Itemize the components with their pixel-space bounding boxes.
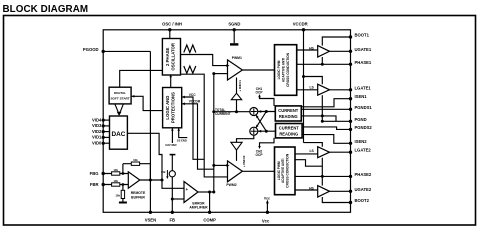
wire phase sense ch2 <box>295 160 322 167</box>
node reading2 branch <box>265 130 268 133</box>
wire total current to summer1 <box>214 111 250 113</box>
arrowhead ramp1 into PWM1 <box>226 64 229 67</box>
svg-text:OCP: OCP <box>256 90 264 94</box>
svg-text:OSCILLATOR: OSCILLATOR <box>170 42 175 70</box>
svg-text:LOGIC PWM: LOGIC PWM <box>277 161 281 180</box>
svg-text:UGATE1: UGATE1 <box>355 47 372 52</box>
svg-text:10k: 10k <box>113 179 118 183</box>
svg-text:PHASE2: PHASE2 <box>355 172 372 177</box>
svg-text:SGND: SGND <box>228 22 240 27</box>
svg-text:CURRENT: CURRENT <box>215 112 231 116</box>
svg-text:LGATE1: LGATE1 <box>355 85 372 90</box>
PWM comparator PWM2 <box>228 161 243 182</box>
node PGND junction <box>321 120 324 123</box>
current reading box ch1 <box>275 106 301 121</box>
sawtooth ramp2 glyph <box>184 66 196 73</box>
wire PHASE2 to HS2 top <box>321 176 323 185</box>
wire CH1 OCP tap <box>260 95 275 106</box>
wire PGNDS1 <box>301 108 350 110</box>
remote buffer opamp <box>128 172 140 188</box>
wire OSC/INH stub <box>169 30 171 39</box>
node FBR buffer junction <box>122 183 125 186</box>
node riser PWM2 junction <box>212 164 215 167</box>
wire summer1 correction to PWM1 <box>236 78 238 112</box>
arrowhead CH1 OCP <box>258 94 261 97</box>
wire VID2 stub <box>103 131 109 133</box>
svg-text:PWM1: PWM1 <box>232 56 242 60</box>
svg-text:+ IINFO2: + IINFO2 <box>242 155 246 167</box>
svg-text:SOFT START: SOFT START <box>110 96 129 100</box>
wire protections bottom arrow2 <box>179 128 188 137</box>
node PGOOD pin <box>102 50 105 53</box>
PWM comparator PWM1 <box>228 60 243 80</box>
svg-text:VID2: VID2 <box>92 129 102 134</box>
soft start to DAC bus arrow <box>115 104 124 112</box>
resistor 10k to ground <box>121 190 124 198</box>
svg-text:CROSS CONDUCTION: CROSS CONDUCTION <box>286 153 290 188</box>
node reference junction <box>161 179 164 182</box>
wire LS2 bottom to PHASE2 <box>321 158 323 177</box>
wire FB to error amp inverting input <box>172 198 184 200</box>
node FB tap junction <box>171 198 174 201</box>
svg-text:DIGITAL: DIGITAL <box>114 91 126 95</box>
wire FBG input <box>103 173 128 175</box>
svg-text:CURRENT: CURRENT <box>279 126 300 131</box>
node VID2 pin <box>102 130 105 133</box>
svg-text:HS: HS <box>309 186 314 190</box>
svg-text:PGOOD: PGOOD <box>83 47 99 52</box>
arrowhead diag into summer1 <box>256 115 259 118</box>
arrowhead reading2 into summer2 <box>258 130 261 133</box>
svg-text:HS: HS <box>309 46 314 50</box>
node PHASE2 pin <box>349 175 352 178</box>
wire VID1 stub <box>103 136 109 138</box>
node PHASE2 junction <box>321 175 324 178</box>
wire ISEN1 <box>301 99 350 107</box>
current reading box ch2 <box>276 124 303 138</box>
wire PHASE2 <box>295 175 351 177</box>
svg-text:PGNDS1: PGNDS1 <box>355 105 373 110</box>
wire VID4 stub <box>103 119 109 121</box>
wire VCCDR to LS2 driver <box>304 143 323 147</box>
wire summer2 output to PWM2 <box>237 135 254 161</box>
summer circle ch2 <box>250 127 258 135</box>
wire driver logic to HS2 <box>295 189 318 191</box>
svg-text:LOGIC PWM: LOGIC PWM <box>277 60 281 79</box>
LS2 driver <box>318 147 330 158</box>
svg-text:PGNDS2: PGNDS2 <box>355 125 373 130</box>
wire DAC output to error amp <box>127 133 184 188</box>
wire LGATE1 <box>330 89 351 91</box>
SGND ground bar <box>230 43 238 45</box>
node VID0 pin <box>102 142 105 145</box>
summer circle ch1 <box>250 108 258 116</box>
droop current generator <box>169 171 175 177</box>
pin labels left side <box>83 47 102 187</box>
svg-text:CURRENT: CURRENT <box>278 108 299 113</box>
node riser total current junction <box>212 110 215 113</box>
wire droop tee bar stem <box>171 155 173 171</box>
wire oscillator to soft start <box>120 70 163 87</box>
node PHASE1 pin <box>349 63 352 66</box>
wire protections to soft start <box>132 96 163 110</box>
node LGATE1 pin <box>349 88 352 91</box>
svg-text:READING: READING <box>279 114 298 119</box>
wire remote buffer feedback <box>123 164 150 180</box>
wire CH2 OCP tap <box>260 138 275 147</box>
anti cross conduction logic box ch2 <box>275 147 296 195</box>
svg-text:AMPLIFIER: AMPLIFIER <box>189 206 208 210</box>
svg-text:FBG: FBG <box>90 171 99 176</box>
arrowhead VCC into protections <box>182 96 185 99</box>
wire PGND <box>322 120 350 122</box>
svg-text:VSEN: VSEN <box>145 218 156 223</box>
wire COMP riser to PWM1 inverting input <box>214 73 228 75</box>
wire ramp1 from oscillator to PWM1 <box>181 55 228 66</box>
wire current reading1 to summer1 <box>258 111 276 113</box>
wire protections bottom arrow1 <box>171 128 173 143</box>
wire VID3 stub <box>103 125 109 127</box>
node FB pin <box>171 211 174 214</box>
node PGNDS2 pin <box>349 128 352 131</box>
wire BOOT2 <box>322 197 350 203</box>
wire cross current share diag2 <box>256 115 266 131</box>
node BOOT1 pin <box>349 35 352 38</box>
node VSEN pin <box>149 211 152 214</box>
arrowhead OVP into protections bottom <box>177 128 180 131</box>
wire COMP riser to PWM2 input <box>214 164 228 166</box>
resistor 10k feedback <box>131 162 139 165</box>
svg-text:VID3: VID3 <box>92 123 102 128</box>
node VCCDR pin <box>302 28 305 31</box>
wire driver logic to LS1 <box>297 89 318 91</box>
wire LS1 bottom to PGND <box>321 95 323 121</box>
node OSC/INH pin <box>168 28 171 31</box>
wire VCCDR to LS1 driver <box>304 77 323 85</box>
wire driver logic to LS2 <box>295 153 318 155</box>
wire FBR input <box>103 184 128 186</box>
svg-text:LGATE2: LGATE2 <box>355 148 372 153</box>
node riser PWM1 junction <box>212 72 215 75</box>
HS2 driver <box>318 186 330 197</box>
svg-text:LOGIC AND: LOGIC AND <box>165 96 170 120</box>
node VID3 pin <box>102 124 105 127</box>
sawtooth ramp1 glyph <box>184 45 196 53</box>
wire PWM1 output <box>242 69 274 71</box>
node riser output junction <box>212 191 215 194</box>
wire INH oscillator to protections <box>170 75 172 88</box>
wire UGATE2 <box>330 190 351 192</box>
node FBR pin <box>102 183 105 186</box>
wire UGATE1 <box>330 50 351 52</box>
node VID4 pin <box>102 119 105 122</box>
resistor 10k FBG <box>112 172 120 175</box>
node COMP output junction <box>208 191 211 194</box>
node VCCDR branch ch1 <box>302 75 305 78</box>
svg-text:VID4: VID4 <box>92 117 102 122</box>
wire BOOT1 <box>322 37 350 46</box>
svg-text:DAC: DAC <box>111 131 125 138</box>
wire VCCDR vertical rail <box>303 30 305 143</box>
wire ISEN2 <box>302 135 350 144</box>
svg-text:LS: LS <box>309 85 314 89</box>
wire PWM2 output <box>242 170 274 172</box>
node FBG pin <box>102 172 105 175</box>
anti cross conduction logic box ch1 <box>275 45 297 96</box>
arrowhead VCCDR into protections <box>182 102 185 105</box>
svg-text:ISEN1: ISEN1 <box>355 94 368 99</box>
DAC box <box>110 116 128 149</box>
arrowhead INH into oscillator <box>169 74 172 77</box>
arrowhead diag into summer2 <box>256 125 259 128</box>
svg-text:PWM2: PWM2 <box>226 183 236 187</box>
wire ramp2 from oscillator to PWM2 <box>181 74 232 177</box>
wire VCCDR arrow into protections <box>182 104 214 169</box>
svg-text:+ IINFO1: + IINFO1 <box>238 80 242 92</box>
resistor 10k FBR <box>112 183 120 186</box>
svg-text:LS: LS <box>309 149 314 153</box>
svg-text:REMOTE: REMOTE <box>131 191 146 195</box>
node FBG buffer junction <box>122 172 125 175</box>
svg-text:VCC: VCC <box>189 93 196 97</box>
wire current reading2 to summer2 <box>258 130 276 132</box>
svg-text:0.8V REF: 0.8V REF <box>165 143 177 147</box>
node VSEN junction <box>149 179 152 182</box>
svg-text:BLOCK DIAGRAM: BLOCK DIAGRAM <box>3 4 89 15</box>
wire remote buffer output to VSEN node <box>140 179 162 181</box>
svg-text:Vcc: Vcc <box>264 196 270 200</box>
svg-text:10k: 10k <box>115 194 120 198</box>
wire error amp output <box>198 191 214 193</box>
wire COMP distribution riser <box>213 74 215 192</box>
correction buffer amp ch1 <box>231 93 241 100</box>
node PGND pin <box>349 120 352 123</box>
Vcc arrowhead <box>266 200 269 204</box>
digital soft start box <box>109 87 131 104</box>
droop current generator rail bar <box>170 154 176 156</box>
svg-text:BUFFER: BUFFER <box>131 195 145 199</box>
wire PGOOD-VSEN vertical <box>149 51 151 212</box>
wire phase sense ch1 <box>301 116 336 121</box>
correction buffer amp ch2 <box>231 142 242 150</box>
wire VID0 stub <box>103 142 109 144</box>
wire PGOOD <box>103 50 150 52</box>
svg-text:FB: FB <box>170 218 176 223</box>
wire VCC arrow into protections <box>182 97 204 159</box>
wire SGND stem <box>233 30 235 43</box>
wire PHASE1 <box>297 63 351 65</box>
wire LGATE2 <box>330 151 351 153</box>
node reading1 branch <box>265 110 268 113</box>
svg-text:ADAPTIVE ANTI: ADAPTIVE ANTI <box>281 159 285 183</box>
arrowhead CH2 OCP <box>258 146 261 149</box>
IC boundary box <box>103 30 350 213</box>
node VID1 pin <box>102 136 105 139</box>
wire Vcc pin arrow stem <box>266 203 268 212</box>
svg-text:PROTECTIONS: PROTECTIONS <box>171 92 176 123</box>
HS1 driver <box>318 46 330 57</box>
arrowhead UVP into protections bottom <box>171 128 174 131</box>
svg-text:PHASE1: PHASE1 <box>355 60 372 65</box>
svg-text:ISEN2: ISEN2 <box>355 139 368 144</box>
wire COMP pin riser <box>209 192 211 212</box>
svg-text:UGATE2: UGATE2 <box>355 187 372 192</box>
node ISEN1 pin <box>349 97 352 100</box>
node BOOT2 pin <box>349 201 352 204</box>
node LGATE2 pin <box>349 151 352 154</box>
svg-text:SS END: SS END <box>177 138 187 142</box>
svg-text:10k: 10k <box>113 168 118 172</box>
svg-text:+: + <box>186 187 189 192</box>
pin labels right side <box>355 33 373 204</box>
arrowhead reading1 into summer1 <box>258 110 261 113</box>
svg-text:IFB: IFB <box>161 170 165 174</box>
svg-text:2 PHASE: 2 PHASE <box>165 47 170 66</box>
wire HS1 bottom to PHASE1 <box>321 57 323 64</box>
node summer1 output tee <box>235 110 238 113</box>
svg-text:VCCDR: VCCDR <box>293 22 308 27</box>
svg-text:VCCDR: VCCDR <box>189 100 201 104</box>
arrowhead into soft start from protections <box>132 95 135 98</box>
oscillator box U-OSC <box>162 39 180 76</box>
error amplifier <box>184 182 198 203</box>
wire PGNDS2 <box>302 127 350 129</box>
svg-text:VID0: VID0 <box>92 141 102 146</box>
FBR divider ground symbol <box>119 202 127 204</box>
svg-text:BOOT1: BOOT1 <box>355 33 370 38</box>
svg-text:OCP: OCP <box>256 153 264 157</box>
arrowhead comp into PWM2 <box>226 164 229 167</box>
svg-text:PGND: PGND <box>355 117 367 122</box>
svg-text:VID1: VID1 <box>92 135 102 140</box>
svg-text:CROSS CONDUCTION: CROSS CONDUCTION <box>286 52 290 87</box>
wire cross current share diag1 <box>256 112 266 128</box>
svg-text:Vcc: Vcc <box>262 218 270 223</box>
node COMP pin <box>208 211 211 214</box>
node PHASE1 junction <box>321 63 324 66</box>
node PGNDS1 pin <box>349 108 352 111</box>
svg-text:10k: 10k <box>133 158 138 162</box>
svg-text:OSC / INH: OSC / INH <box>162 22 182 27</box>
wire driver logic to HS1 <box>297 49 318 51</box>
pin labels top <box>162 22 308 27</box>
node UGATE1 pin <box>349 50 352 53</box>
wire FBR divider to ground <box>122 185 124 202</box>
node UGATE2 pin <box>349 190 352 193</box>
svg-text:FBR: FBR <box>90 182 99 187</box>
wire droop generator to FB <box>171 177 173 213</box>
node ISEN2 pin <box>349 142 352 145</box>
svg-text:ADAPTIVE ANTI: ADAPTIVE ANTI <box>282 58 286 82</box>
logic and protections box <box>163 88 182 128</box>
svg-text:COMP: COMP <box>203 218 216 223</box>
LS1 driver <box>318 84 330 95</box>
node Vcc pin <box>266 211 269 214</box>
pin labels bottom <box>145 218 270 224</box>
svg-text:READING: READING <box>279 131 298 136</box>
node SGND pin <box>233 28 236 31</box>
svg-text:BOOT2: BOOT2 <box>355 198 370 203</box>
node phase sense junction ch1 <box>321 114 324 117</box>
